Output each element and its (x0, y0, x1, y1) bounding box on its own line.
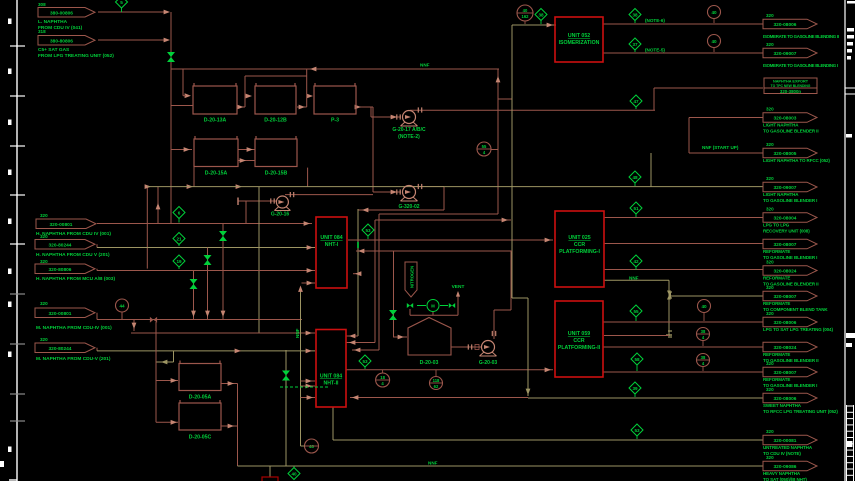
green tick on x358 (357, 242, 359, 248)
stream flag 320-09007 (763, 48, 817, 58)
label TO GASOLINE BLENDER I (763, 255, 817, 260)
wire sweet naphtha line (350, 397, 528, 399)
wire P-3 outlet drop (370, 107, 372, 117)
wire sweet naphtha left stub (301, 397, 316, 399)
flange G-20-16 discharge flange (290, 192, 293, 197)
svg-text:ISOMERATE TO GASOLINE BLENDING: ISOMERATE TO GASOLINE BLENDING II (763, 34, 839, 39)
svg-text:21: 21 (176, 236, 182, 241)
svg-text:320-08006: 320-08006 (774, 320, 797, 326)
svg-text:NHT-II: NHT-II (324, 381, 340, 387)
arrow into PLAT-I (545, 238, 551, 243)
svg-text:320-08024: 320-08024 (774, 345, 797, 351)
wire NHT-II feed y381 (301, 380, 316, 382)
tank D-20-13A (193, 83, 237, 124)
svg-text:NNF (START UP): NNF (START UP) (702, 145, 739, 150)
left border grid letter 5 (8, 219, 12, 225)
svg-text:NNF: NNF (629, 276, 639, 281)
wire L.naphtha inlet line (98, 11, 168, 13)
wire x300 olive drop (300, 287, 302, 446)
left border tick 2 (10, 95, 25, 97)
svg-text:38: 38 (701, 329, 706, 334)
arrow into ISOM (547, 23, 553, 28)
wire NHT-I feed line1 (97, 223, 312, 225)
label REFORMATE (763, 301, 790, 306)
label UNTREATED NAPHTHA (763, 445, 813, 450)
svg-text:SWEET NAPHTHA: SWEET NAPHTHA (763, 403, 802, 408)
diamond tag 48 (629, 171, 641, 186)
svg-text:REFORMATE: REFORMATE (763, 377, 790, 382)
svg-text:380-80806: 380-80806 (50, 38, 73, 44)
wire NHT-I feed line2 (97, 247, 315, 249)
svg-text:320-08024: 320-08024 (774, 269, 797, 275)
label L. NAPHTHA (38, 19, 68, 25)
svg-text:M: M (431, 304, 435, 309)
wire isom product line A (603, 23, 763, 25)
label TO RFCC LPG TREATING UNIT (052) (763, 409, 838, 414)
title block divider 2 (845, 93, 855, 95)
label TO GASOLINE BLENDER II (763, 281, 818, 286)
label 320 (766, 207, 774, 212)
instrument bubble 40-162 (517, 5, 533, 24)
wire G-320-02 suction (373, 191, 401, 193)
left border grid letter 4 (8, 170, 12, 176)
svg-text:REFORMATE: REFORMATE (763, 301, 790, 306)
wire sweet naphtha line olive (528, 397, 763, 399)
arrow into D-20-15B (247, 147, 253, 152)
label (NOTE-5) (645, 48, 665, 53)
svg-text:D-20-03: D-20-03 (420, 360, 439, 366)
svg-text:37: 37 (632, 42, 638, 47)
svg-text:LPG TO SAT LPG TREATING (004): LPG TO SAT LPG TREATING (004) (763, 327, 833, 332)
stream flag 320-08006 (763, 317, 817, 327)
unit box U084 NHT-I (316, 217, 347, 288)
wire x358 into NHT-I (353, 273, 358, 275)
green dashed signal (280, 386, 330, 388)
svg-text:318: 318 (38, 29, 46, 34)
svg-text:6: 6 (178, 210, 181, 215)
left border grid letter 8 (8, 352, 12, 358)
instrument bubble 40b (708, 35, 721, 53)
stream flag 320-08007 (763, 367, 817, 377)
left border grid letter 7 (8, 302, 12, 308)
svg-text:320-80244: 320-80244 (49, 346, 72, 352)
svg-text:ISOMERATE TO GASOLINE BLENDING: ISOMERATE TO GASOLINE BLENDING I (763, 63, 838, 68)
label 320 (40, 337, 48, 342)
arrow header arrow b (187, 184, 193, 189)
wire bubble 55 stub (491, 149, 498, 151)
tank D-20-05A (179, 361, 221, 401)
label NNF (START UP) (702, 145, 739, 150)
wire heavy naphtha bottom line (238, 465, 764, 467)
label 320 (40, 259, 48, 264)
stream flag 320-09007 (763, 182, 817, 192)
wire NHT-II vessel drop x393 (393, 251, 395, 337)
diamond tag 42 (630, 255, 642, 270)
title block top corner (847, 1, 855, 4)
arrow D13A out arrow (237, 105, 243, 110)
valve vC (190, 279, 198, 289)
svg-text:D-20-12B: D-20-12B (264, 118, 287, 124)
wire G-20-17 suction (371, 116, 401, 118)
svg-text:42: 42 (633, 259, 639, 264)
svg-text:CCR: CCR (573, 338, 584, 344)
svg-text:38: 38 (701, 355, 706, 360)
valve spec break (150, 317, 157, 323)
wire PLAT-II reformate line2 (603, 371, 763, 373)
bottom left red box fragment (262, 477, 278, 481)
wire lt naphtha blender II drop (688, 118, 690, 154)
unit box U052 ISOMERIZATION (555, 17, 603, 62)
arrow x528 down arrow (526, 389, 531, 395)
diamond tag 55 (630, 305, 642, 321)
wire NHT-I feed line3 (97, 270, 315, 272)
label 320 (766, 387, 774, 392)
pcv bubble (427, 300, 439, 312)
wire D13A inlet stub (183, 95, 186, 97)
pump G-20-17 label (392, 127, 426, 140)
flange G-20-03 suction flange (468, 344, 471, 349)
svg-text:320-09007: 320-09007 (774, 185, 797, 191)
wire valve drop B (207, 248, 209, 320)
svg-text:TO RFCC LPG TREATING UNIT (052: TO RFCC LPG TREATING UNIT (052) (763, 409, 838, 414)
label ISOMERATE TO GASOLINE BLENDING II (763, 34, 839, 39)
arrow B down arrow (205, 311, 210, 317)
stream flag 380-00806 (38, 8, 95, 18)
arrow into NHT-II c2 (306, 384, 312, 389)
wire PLAT-II lpg line (603, 321, 763, 323)
svg-text:38: 38 (538, 12, 544, 17)
arrow into manifold2 (164, 38, 170, 43)
svg-text:55: 55 (482, 144, 487, 149)
left border tick gray 3 (10, 393, 25, 395)
arrow into D-05C (171, 420, 177, 425)
svg-text:380-00806: 380-00806 (50, 10, 73, 16)
flange G-320-02 suction flange (397, 189, 400, 194)
svg-text:320-08007: 320-08007 (774, 242, 797, 248)
label 320 (40, 213, 48, 218)
arrow into D-20-15A (184, 147, 190, 152)
wire x307 riser (306, 69, 308, 107)
instrument bubble 18-6 (376, 370, 390, 387)
valve vB (204, 255, 212, 265)
diamond tag 40 (288, 467, 300, 480)
svg-text:PLATFORMING-I: PLATFORMING-I (559, 249, 600, 255)
valve n2 valve 1 (407, 303, 413, 308)
label REFORMATE (763, 377, 790, 382)
svg-text:40: 40 (701, 304, 707, 309)
label 308 (38, 2, 46, 7)
diamond tag 19 (173, 255, 185, 269)
instrument bubble 40d (305, 439, 319, 453)
svg-text:D-20-05A: D-20-05A (189, 395, 212, 401)
svg-text:320-09007: 320-09007 (774, 51, 797, 57)
stream flag 320-08004 (763, 213, 817, 223)
wire row2 inlet line (171, 149, 192, 151)
valve day tank valve (282, 371, 290, 381)
unit box U059 PLATFORMING-II (555, 301, 603, 377)
diamond tag 39 (629, 382, 641, 397)
pump G-20-17 A/B/C (401, 111, 418, 127)
wire mid line y214 (379, 213, 498, 215)
wire tank feed line y105 (171, 105, 193, 107)
arrow C down arrow (191, 311, 196, 317)
wire valve drop C (193, 271, 195, 320)
wire valve drop A (222, 224, 224, 320)
label LPG TO SAT LPG TREATING (004) (763, 327, 833, 332)
svg-text:LPG TO LPG: LPG TO LPG (763, 223, 790, 228)
svg-text:320-3800n: 320-3800n (780, 89, 802, 94)
diamond tag 38 (535, 9, 547, 25)
svg-text:UNIT 084: UNIT 084 (320, 374, 342, 380)
svg-text:118: 118 (433, 378, 440, 383)
vessel D-20-03 (408, 318, 451, 367)
arrow into NHT-II f (352, 395, 358, 400)
wire G-320-02 discharge drop (443, 187, 445, 211)
wire olive drop x286 (285, 350, 287, 466)
stream flag 380-80806 (38, 36, 95, 46)
arrow branch arrow (161, 360, 167, 365)
wire G-20-03 discharge riser (493, 310, 495, 339)
arrow y333 drop arrow (132, 323, 137, 329)
label LIGHT NAPHTHA (763, 192, 799, 197)
svg-text:UNIT 052: UNIT 052 (568, 33, 590, 39)
wire G-20-03 discharge top (494, 309, 511, 311)
wire M.naphtha line4 (97, 319, 302, 321)
label LPG TO LPG (763, 223, 790, 228)
svg-text:62: 62 (434, 384, 439, 389)
bottom left grid letter (0, 461, 4, 467)
arrow into NHT-II c (306, 379, 312, 384)
wire olive stub x651 (650, 153, 652, 187)
svg-text:NAPHTHA EXPORT: NAPHTHA EXPORT (773, 80, 809, 84)
wire isom product line B (603, 52, 763, 54)
title block divider 1 (845, 87, 855, 89)
svg-text:NNF: NNF (295, 328, 300, 338)
arrow H1 up arrow (496, 76, 501, 82)
svg-text:53: 53 (634, 428, 640, 433)
label REFORMATE (763, 352, 790, 357)
svg-text:320-00801: 320-00801 (50, 222, 73, 228)
svg-text:320: 320 (766, 429, 774, 434)
wire red box drop (269, 466, 271, 477)
svg-text:M. NAPHTHA FROM CDU-IV (001): M. NAPHTHA FROM CDU-IV (001) (36, 325, 112, 331)
tank D-20-12B (255, 83, 296, 124)
wire circle44 stem line4 (121, 312, 123, 320)
unit box U025 PLATFORMING-I (555, 211, 604, 287)
svg-text:40: 40 (291, 471, 297, 476)
svg-text:320-08007: 320-08007 (774, 370, 797, 376)
svg-text:320-08006: 320-08006 (774, 22, 797, 28)
arrow D12B out arrow (299, 105, 305, 110)
label M. NAPHTHA FROM CDU-IV (001) (36, 325, 112, 331)
wire line5 branch down (173, 351, 175, 362)
label SWEET NAPHTHA (763, 403, 802, 408)
svg-text:53: 53 (362, 359, 368, 364)
svg-text:(NOTE-5): (NOTE-5) (645, 48, 665, 53)
wire D-05A inlet (156, 380, 178, 382)
instrument bubble control 55 (477, 142, 491, 156)
svg-text:162: 162 (522, 14, 530, 19)
arrow into NHT-II r3 (354, 348, 360, 353)
wire y333 drop from line4 (133, 320, 135, 332)
label (NOTE-6) (645, 18, 665, 23)
wire olive drop x528 (527, 298, 529, 396)
wire G-20-16 suction (238, 200, 276, 202)
svg-text:NNF: NNF (428, 461, 438, 466)
arrow P-3 out arrow (355, 105, 361, 110)
stream flag 320-08024 (763, 266, 817, 276)
label FROM CDU IV (041) (38, 25, 83, 31)
svg-text:H. NAPHTHA FROM MCU A/B (003): H. NAPHTHA FROM MCU A/B (003) (36, 276, 115, 282)
label 320 (766, 429, 774, 434)
instrument bubble 40c (698, 300, 711, 322)
label TO GASOLINE BLENDER I (763, 383, 817, 388)
arrow into NHT-II r2 (349, 340, 355, 345)
label H. NAPHTHA FROM CDU IV (001) (36, 231, 111, 237)
svg-text:H. NAPHTHA FROM CDU V (201): H. NAPHTHA FROM CDU V (201) (36, 252, 110, 258)
svg-text:REFORMATE: REFORMATE (763, 249, 790, 254)
diamond tag 51 (630, 202, 642, 217)
bottom border segment (9, 479, 17, 481)
left border tick 1 (10, 45, 25, 47)
svg-text:D-20-05C: D-20-05C (189, 435, 212, 441)
wire vessel outlet (451, 346, 481, 348)
wire recycle line y210 (358, 209, 444, 211)
svg-text:320-00081: 320-00081 (774, 438, 797, 444)
label 320 (40, 234, 48, 239)
drawing frame right border line (844, 0, 846, 481)
svg-text:47: 47 (633, 99, 639, 104)
wire olive trunk corner (512, 297, 528, 299)
wire PLAT-II reformate line1 (603, 346, 763, 348)
wire brick drop x511 (510, 251, 512, 310)
wire x379 into NHT-II (352, 349, 379, 351)
svg-text:LIGHT NAPHTHA: LIGHT NAPHTHA (763, 192, 799, 197)
svg-text:D-20-15A: D-20-15A (205, 171, 228, 177)
svg-text:NNF: NNF (420, 63, 430, 68)
wire left trunk vertical (170, 12, 172, 224)
wire LF7 jog (96, 348, 98, 351)
stream flag 320-00801 (35, 308, 95, 318)
arrow D05A out (228, 381, 234, 386)
label 320 (766, 285, 774, 290)
svg-text:320: 320 (766, 142, 774, 147)
stream flag 320-08003 (763, 113, 817, 123)
tank D-20-05C (179, 400, 221, 441)
left border tick gray 2 (10, 343, 25, 345)
svg-text:L. NAPHTHA: L. NAPHTHA (38, 19, 68, 25)
svg-text:5: 5 (120, 0, 123, 5)
svg-text:UNTREATED NAPHTHA: UNTREATED NAPHTHA (763, 445, 813, 450)
svg-text:51: 51 (633, 206, 639, 211)
wire P-3 outlet (357, 106, 373, 108)
stream flag 320-08006 (763, 393, 817, 403)
label TO GASOLINE BLENDER I (763, 198, 817, 203)
wire D-05A outlet (221, 383, 238, 385)
label 318 (38, 29, 46, 34)
arrow into D-20-13A (185, 93, 191, 98)
naphtha export box (764, 78, 817, 94)
wire mid line y220 (375, 219, 511, 221)
valve vessel feed valve (389, 310, 397, 320)
left border tick gray 4 (10, 420, 25, 422)
title block small bar (846, 134, 852, 138)
diamond tag 58 (631, 353, 643, 371)
pump G-20-03 (480, 341, 497, 357)
instrument bubble 38-4a (697, 328, 710, 347)
wire header drop x158 (157, 187, 159, 224)
svg-text:G-20-16: G-20-16 (271, 212, 290, 218)
stream flag 320-00801 (36, 219, 96, 229)
svg-text:55: 55 (633, 309, 639, 314)
label HEAVY NAPHTHA (763, 471, 801, 476)
wire D15A drain (193, 167, 195, 187)
arrow into NHT-II g (307, 395, 313, 400)
wire pump suction trunk (372, 107, 374, 192)
arrow into D-20-03 (398, 335, 404, 340)
svg-text:UNIT 059: UNIT 059 (568, 331, 590, 337)
flange G-20-17 suction flange (397, 114, 400, 119)
wire olive NNF vert x669 (668, 280, 670, 336)
arrow header arrow c (236, 184, 242, 189)
arrow into NHT-II r1 (349, 334, 355, 339)
wire G-320-02 discharge up (410, 186, 444, 188)
tank D-20-15A (194, 136, 238, 177)
label 320 (766, 361, 774, 366)
instrument bubble 118-62 (430, 370, 443, 390)
svg-text:39: 39 (632, 386, 638, 391)
olive valve on x669 (667, 291, 671, 300)
diamond tag 53 (359, 355, 371, 369)
wire NHT-II feed y333 (131, 332, 315, 334)
label C5+ SAT GAS (38, 47, 70, 53)
wire day tank outlet trunk (237, 384, 239, 467)
wire LF6 jog (96, 313, 98, 320)
label TO COMPONENT BLEND TANK (763, 307, 828, 312)
stream flag 320-08007 (763, 239, 817, 249)
label NNF (420, 63, 430, 68)
svg-text:P-3: P-3 (331, 118, 339, 124)
wire x375 into NHT-II (346, 342, 375, 344)
stream flag 320-08024 (763, 342, 817, 352)
flange G-20-16 suction flange (271, 198, 274, 203)
stream flag 320-80806 (35, 264, 95, 274)
flange G-20-03 discharge flange (492, 331, 495, 336)
svg-text:M. NAPHTHA FROM CDU-V (201): M. NAPHTHA FROM CDU-V (201) (36, 356, 111, 362)
svg-text:NHT-I: NHT-I (325, 242, 339, 248)
arrow into D-05A (171, 378, 177, 383)
label RECOVERY UNIT (008) (763, 228, 810, 233)
label REFORMATE (763, 276, 790, 281)
wire M.naphtha line5 (97, 350, 315, 352)
left border grid letter 3 (8, 120, 12, 126)
label TO SAT (050)/(B NHT) (763, 477, 807, 481)
svg-text:320: 320 (766, 207, 774, 212)
arrow y220 arrow (502, 218, 508, 223)
svg-text:320-08005: 320-08005 (774, 151, 797, 157)
wire NHT-II feed y386 (301, 385, 316, 387)
wire brick stub y335.5 (604, 335, 669, 337)
flange G-320-02 discharge flange (418, 184, 421, 189)
vent label (452, 284, 465, 290)
olive valve tick 2 (668, 331, 672, 337)
instrument bubble 40a (708, 6, 721, 24)
svg-text:320: 320 (766, 260, 774, 265)
wire D15A outlet (238, 149, 255, 151)
left border tick 4 (10, 194, 25, 196)
pump G-320-02 (401, 186, 418, 202)
arrow A down arrow (221, 311, 226, 317)
